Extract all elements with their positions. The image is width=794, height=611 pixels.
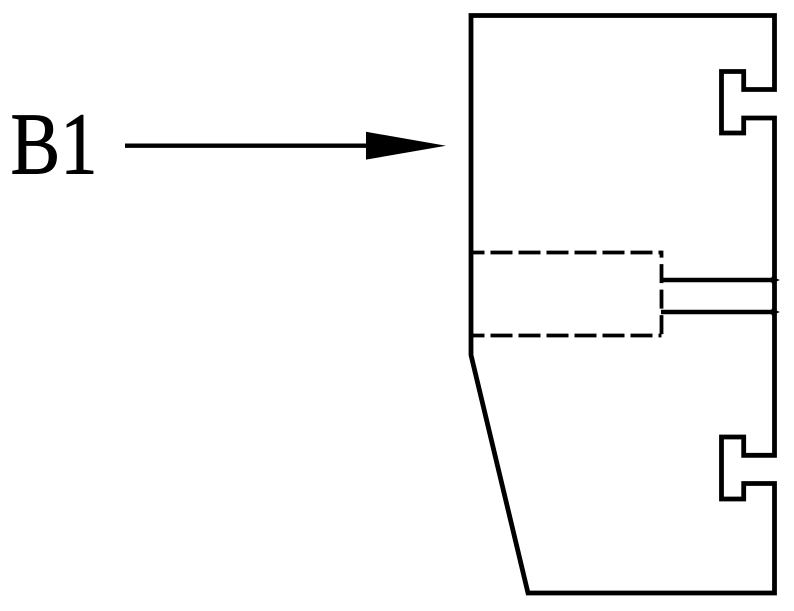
part outline with two T-slots	[471, 16, 775, 594]
upper pin line	[661, 278, 776, 283]
dashed slot bottom edge	[471, 334, 662, 338]
leader arrow shaft	[125, 144, 370, 148]
dashed slot right edge	[660, 251, 664, 338]
lower pin line	[661, 310, 776, 315]
dashed slot top edge	[471, 251, 662, 255]
leader arrowhead	[366, 132, 446, 160]
upper pin line tip	[772, 277, 781, 284]
svg-text:B1: B1	[11, 97, 98, 194]
lower pin line tip	[772, 309, 781, 316]
